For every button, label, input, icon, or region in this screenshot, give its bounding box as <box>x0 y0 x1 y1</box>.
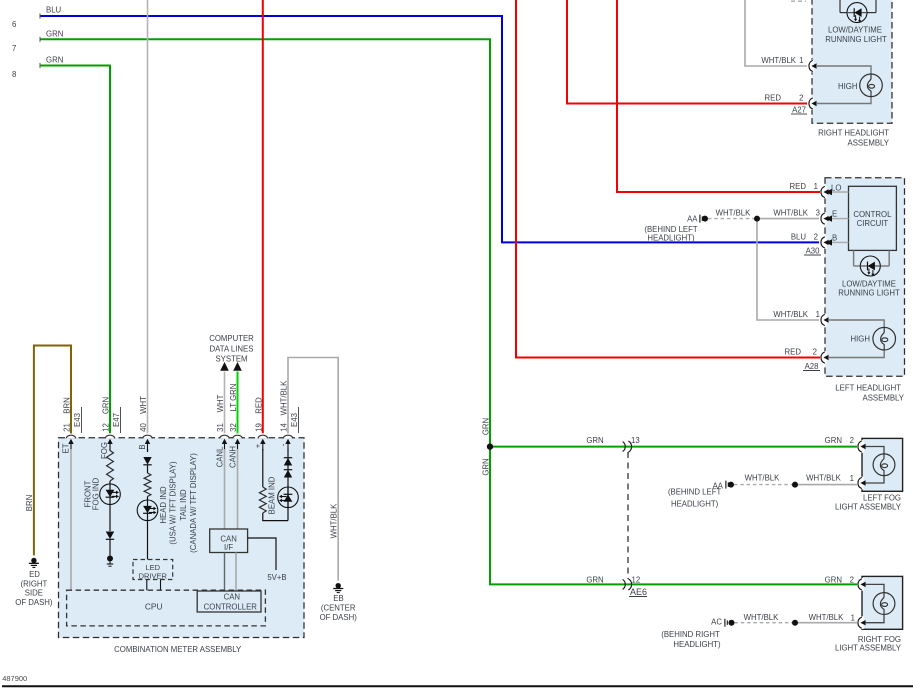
svg-text:(CENTER: (CENTER <box>321 603 356 612</box>
svg-text:487900: 487900 <box>2 674 27 683</box>
svg-text:WHT/BLK: WHT/BLK <box>806 474 841 483</box>
svg-text:WHT/BLK: WHT/BLK <box>745 474 780 483</box>
svg-text:OF DASH): OF DASH) <box>320 613 358 622</box>
svg-text:BLU: BLU <box>791 233 807 242</box>
svg-text:SIDE: SIDE <box>25 589 43 598</box>
svg-text:B: B <box>138 444 147 449</box>
svg-text:WHT/BLK: WHT/BLK <box>716 209 751 218</box>
svg-text:RED: RED <box>254 397 263 414</box>
svg-text:OF DASH): OF DASH) <box>15 598 53 607</box>
svg-text:BEAM IND: BEAM IND <box>268 476 277 514</box>
svg-text:31: 31 <box>216 423 225 432</box>
svg-text:14: 14 <box>280 423 289 432</box>
svg-text:GRN: GRN <box>482 458 491 475</box>
svg-text:2: 2 <box>814 233 818 242</box>
svg-text:+: + <box>254 443 263 448</box>
svg-text:2: 2 <box>799 94 803 103</box>
svg-text:HEADLIGHT): HEADLIGHT) <box>671 500 719 509</box>
svg-text:RIGHT HEADLIGHT: RIGHT HEADLIGHT <box>818 129 889 138</box>
svg-text:(BEHIND RIGHT: (BEHIND RIGHT <box>661 630 720 639</box>
svg-text:AE6: AE6 <box>630 587 647 597</box>
svg-text:AA: AA <box>687 215 698 224</box>
svg-text:HIGH: HIGH <box>851 335 871 344</box>
svg-text:GRN: GRN <box>482 418 491 435</box>
svg-text:(BEHIND LEFT: (BEHIND LEFT <box>668 488 722 497</box>
svg-text:CONTROL: CONTROL <box>853 210 892 219</box>
svg-text:CAN: CAN <box>224 593 240 602</box>
svg-text:LIGHT ASSEMBLY: LIGHT ASSEMBLY <box>835 503 902 512</box>
svg-text:1: 1 <box>814 182 818 191</box>
svg-text:E: E <box>832 210 837 219</box>
svg-text:2: 2 <box>813 348 817 357</box>
svg-text:E43: E43 <box>73 413 82 427</box>
svg-text:GRN: GRN <box>102 397 111 414</box>
svg-text:1: 1 <box>851 614 855 623</box>
svg-text:-: - <box>279 443 288 446</box>
svg-text:13: 13 <box>631 436 640 445</box>
svg-text:WHT/BLK: WHT/BLK <box>761 56 796 65</box>
svg-text:7: 7 <box>12 44 16 53</box>
svg-text:1: 1 <box>816 310 820 319</box>
svg-text:12: 12 <box>632 576 641 585</box>
svg-text:RED: RED <box>765 94 782 103</box>
svg-text:CONTROLLER: CONTROLLER <box>204 602 258 611</box>
svg-text:WHT/BLK: WHT/BLK <box>280 380 289 415</box>
svg-text:FOG IND: FOG IND <box>92 477 101 510</box>
svg-text:GRN: GRN <box>586 576 603 585</box>
svg-text:LEFT HEADLIGHT: LEFT HEADLIGHT <box>835 384 901 393</box>
svg-text:WHT/BLK: WHT/BLK <box>329 503 338 538</box>
svg-text:RED: RED <box>790 182 807 191</box>
svg-text:CPU: CPU <box>145 602 163 612</box>
svg-text:WHT/BLK: WHT/BLK <box>773 310 808 319</box>
svg-text:A30: A30 <box>806 247 821 256</box>
svg-text:2: 2 <box>850 436 854 445</box>
svg-text:CANH: CANH <box>229 446 238 468</box>
svg-text:GRN: GRN <box>46 56 63 65</box>
svg-text:BRN: BRN <box>63 397 72 413</box>
svg-text:RED: RED <box>785 348 802 357</box>
svg-text:32: 32 <box>229 423 238 432</box>
svg-text:1: 1 <box>850 474 854 483</box>
svg-text:6: 6 <box>12 20 16 29</box>
svg-text:LO: LO <box>831 184 841 193</box>
svg-text:LIGHT ASSEMBLY: LIGHT ASSEMBLY <box>835 644 902 653</box>
svg-text:8: 8 <box>12 70 16 79</box>
svg-text:1: 1 <box>799 56 803 65</box>
svg-text:ET: ET <box>62 443 71 453</box>
svg-text:LOW/DAYTIME: LOW/DAYTIME <box>842 280 896 289</box>
svg-text:WHT: WHT <box>139 396 148 414</box>
svg-text:COMBINATION METER ASSEMBLY: COMBINATION METER ASSEMBLY <box>114 645 242 654</box>
svg-text:40: 40 <box>139 423 148 432</box>
svg-text:E43: E43 <box>290 413 299 427</box>
svg-text:HEADLIGHT): HEADLIGHT) <box>673 640 721 649</box>
svg-text:DRIVER: DRIVER <box>139 572 168 581</box>
svg-text:5V+B: 5V+B <box>267 573 286 582</box>
svg-text:CIRCUIT: CIRCUIT <box>857 219 889 228</box>
svg-text:COMPUTER: COMPUTER <box>209 334 254 343</box>
svg-text:RUNNING LIGHT: RUNNING LIGHT <box>825 35 887 44</box>
svg-text:AC: AC <box>711 618 722 627</box>
svg-text:CANL: CANL <box>216 446 225 467</box>
svg-text:21: 21 <box>63 423 72 432</box>
svg-text:HIGH: HIGH <box>838 82 858 91</box>
svg-text:GRN: GRN <box>586 436 603 445</box>
svg-text:GRN: GRN <box>825 576 842 585</box>
svg-text:B: B <box>832 234 837 243</box>
svg-text:A27: A27 <box>792 106 806 115</box>
svg-text:GRN: GRN <box>46 30 63 39</box>
svg-text:12: 12 <box>102 423 111 432</box>
svg-text:FOG: FOG <box>100 442 109 459</box>
svg-text:WHT/BLK: WHT/BLK <box>809 613 844 622</box>
svg-text:(USA W/ TFT DISPLAY): (USA W/ TFT DISPLAY) <box>169 461 178 545</box>
svg-text:HEADLIGHT): HEADLIGHT) <box>647 234 695 243</box>
svg-text:I/F: I/F <box>224 543 233 552</box>
svg-text:3: 3 <box>816 209 820 218</box>
svg-text:HEAD IND: HEAD IND <box>159 486 168 524</box>
svg-text:A28: A28 <box>805 362 819 371</box>
svg-text:GRN: GRN <box>825 436 842 445</box>
svg-text:SYSTEM: SYSTEM <box>215 355 247 364</box>
svg-text:(RIGHT: (RIGHT <box>20 579 47 588</box>
svg-text:ASSEMBLY: ASSEMBLY <box>848 139 890 148</box>
svg-text:RUNNING LIGHT: RUNNING LIGHT <box>838 288 900 297</box>
svg-text:19: 19 <box>254 423 263 432</box>
svg-text:WHT/BLK: WHT/BLK <box>773 209 808 218</box>
svg-text:WHT/BLK: WHT/BLK <box>744 613 779 622</box>
svg-text:LEFT FOG: LEFT FOG <box>863 494 901 503</box>
svg-text:WHT: WHT <box>216 394 225 412</box>
svg-text:2: 2 <box>850 576 854 585</box>
svg-text:LOW/DAYTIME: LOW/DAYTIME <box>828 26 882 35</box>
svg-text:BRN: BRN <box>25 495 34 511</box>
svg-text:ED: ED <box>29 570 40 579</box>
svg-text:BLU: BLU <box>46 6 62 15</box>
svg-text:(CANADA W/ TFT DISPLAY): (CANADA W/ TFT DISPLAY) <box>189 453 198 553</box>
svg-text:E47: E47 <box>112 413 121 427</box>
svg-text:DATA LINES: DATA LINES <box>210 345 254 354</box>
svg-text:LT GRN: LT GRN <box>229 384 238 412</box>
svg-text:ASSEMBLY: ASSEMBLY <box>863 394 905 403</box>
svg-text:TAIL IND: TAIL IND <box>179 489 188 521</box>
svg-text:EB: EB <box>333 594 343 603</box>
